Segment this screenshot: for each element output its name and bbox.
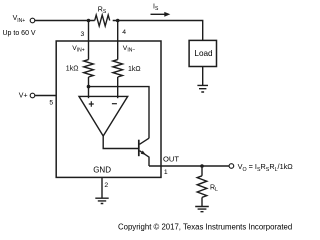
wire left resistor to opamp [88, 77, 90, 98]
resistor 1k left [84, 60, 94, 77]
svg-text:5: 5 [49, 100, 53, 107]
svg-text:GND: GND [93, 166, 111, 175]
terminal V+ [30, 93, 35, 98]
svg-text:IS: IS [153, 4, 159, 13]
ground (RL) [195, 207, 209, 212]
svg-text:3: 3 [81, 31, 85, 38]
node 3 dot [87, 19, 91, 23]
transistor Q1 base bar [138, 140, 140, 157]
svg-text:4: 4 [122, 29, 126, 36]
svg-text:VIN+: VIN+ [72, 45, 85, 54]
wire pin3 drop [88, 21, 90, 60]
opamp minus sign [112, 103, 117, 105]
wire pin4 drop [117, 21, 119, 60]
svg-text:RS: RS [98, 6, 107, 15]
resistor RS [95, 15, 110, 26]
transistor Q1 emitter arrowhead [141, 151, 146, 155]
wire top rail left [35, 20, 95, 22]
terminal VO [229, 164, 234, 169]
ground (load) [197, 85, 208, 92]
wire right resistor to opamp [117, 77, 119, 98]
svg-text:1: 1 [164, 169, 168, 176]
transistor Q1 collector [140, 138, 150, 144]
svg-text:1kΩ: 1kΩ [66, 65, 79, 72]
svg-text:Up to 60 V: Up to 60 V [3, 30, 36, 37]
wire RL top [201, 166, 203, 176]
svg-text:1kΩ: 1kΩ [128, 66, 141, 73]
wire load to ground [202, 67, 204, 86]
resistor RL [197, 176, 207, 198]
svg-text:VIN+: VIN+ [13, 15, 26, 24]
ground (GND pin) [95, 198, 108, 203]
wire top rail right [113, 21, 203, 41]
wire GND pin [101, 177, 103, 197]
wire RL to ground [201, 197, 203, 206]
current arrow IS [151, 13, 166, 15]
svg-text:VO = ISRSRL/1kΩ: VO = ISRSRL/1kΩ [238, 162, 294, 173]
wire V+ [35, 95, 56, 97]
node 4 dot [116, 19, 120, 23]
node OUT dot [200, 164, 204, 168]
wire opamp output to base [103, 136, 139, 149]
transistor Q1 emitter [140, 151, 150, 166]
opamp plus sign [89, 101, 94, 106]
svg-text:V+: V+ [19, 92, 28, 99]
current arrow IS head [164, 12, 170, 17]
svg-text:Copyright © 2017, Texas Instru: Copyright © 2017, Texas Instruments Inco… [118, 222, 292, 231]
svg-text:VIN−: VIN− [123, 45, 136, 54]
op-amp U1 [79, 96, 128, 136]
wire node A to collector [89, 87, 150, 139]
node A dot [87, 85, 91, 89]
svg-text:Load: Load [194, 49, 213, 58]
svg-text:RL: RL [210, 184, 218, 193]
IC box U1 [56, 41, 161, 177]
svg-text:2: 2 [104, 182, 108, 189]
wire OUT [149, 165, 229, 167]
terminal VIN+ [30, 18, 35, 23]
svg-text:OUT: OUT [163, 155, 179, 164]
load box [189, 40, 216, 66]
resistor 1k right [113, 60, 123, 77]
